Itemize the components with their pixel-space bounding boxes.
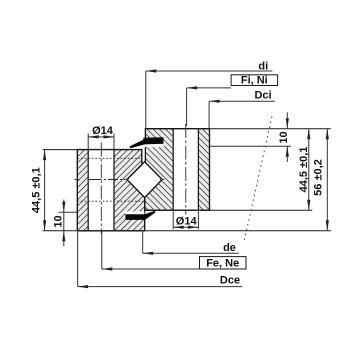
raceway upper-left edge xyxy=(127,162,145,180)
svg-text:Ø14: Ø14 xyxy=(92,125,114,137)
svg-text:Ø14: Ø14 xyxy=(176,216,198,228)
label Fe, Ne (boxed) xyxy=(102,231,246,271)
inner ring (left block, section hatch, raceway carved) xyxy=(77,150,144,231)
svg-text:Dce: Dce xyxy=(220,275,240,287)
seal groove bottom (white) xyxy=(125,211,144,214)
dimension Ø14 bottom (outer ring hole) xyxy=(173,210,198,229)
svg-text:10: 10 xyxy=(53,215,65,227)
horizontal centerline (roller axis) xyxy=(75,179,165,181)
dimension 44,5 ±0,1 left xyxy=(31,150,47,231)
dimension de xyxy=(143,231,239,255)
top edge extension line (outer ring top) xyxy=(145,128,330,130)
10mm reference tick left xyxy=(59,211,78,213)
dimension 10 right xyxy=(278,112,290,162)
dimension Dce xyxy=(78,231,243,288)
dimension di xyxy=(146,60,273,128)
outer ring (right block, section hatch, raceway carved) xyxy=(145,129,210,211)
top seal (black wedge) xyxy=(130,137,164,148)
bottom edge extension line (inner ring bottom) xyxy=(43,230,331,232)
svg-text:Dci: Dci xyxy=(254,90,271,102)
phantom diagonal (gear indication) xyxy=(244,117,272,244)
svg-text:44,5 ±0,1: 44,5 ±0,1 xyxy=(31,167,43,213)
svg-text:56 ±0,2: 56 ±0,2 xyxy=(312,159,324,196)
label Fi, Ni (boxed) xyxy=(187,75,278,127)
svg-text:di: di xyxy=(258,60,268,72)
inner ring top edge extension xyxy=(43,149,142,151)
bottom seal (black wedge) xyxy=(125,211,155,220)
svg-text:Fi, Ni: Fi, Ni xyxy=(241,75,268,87)
bolt hole in inner ring (Ø14) xyxy=(88,150,114,231)
bolt hole in outer ring (Ø14) xyxy=(173,129,198,211)
dimension Ø14 top (inner ring hole) xyxy=(88,125,114,150)
dimension 10 left xyxy=(53,200,66,247)
svg-text:de: de xyxy=(223,242,236,254)
centerline inner hole xyxy=(100,143,102,235)
svg-text:10: 10 xyxy=(278,131,290,143)
dimension Dci xyxy=(209,90,275,129)
hidden line (seal groove upper) xyxy=(77,157,141,159)
hidden line (seal groove lower) xyxy=(77,200,144,202)
seal groove top (white) xyxy=(144,144,164,147)
outer ring bottom edge extension xyxy=(145,209,313,211)
centerline outer hole xyxy=(185,124,187,215)
10mm reference line right xyxy=(210,145,292,147)
svg-text:Fe, Ne: Fe, Ne xyxy=(206,258,239,270)
dimension 44,5 ±0,1 right xyxy=(298,129,311,211)
svg-text:44,5 ±0,1: 44,5 ±0,1 xyxy=(298,147,310,193)
dimension 56 ±0,2 right xyxy=(312,129,329,231)
